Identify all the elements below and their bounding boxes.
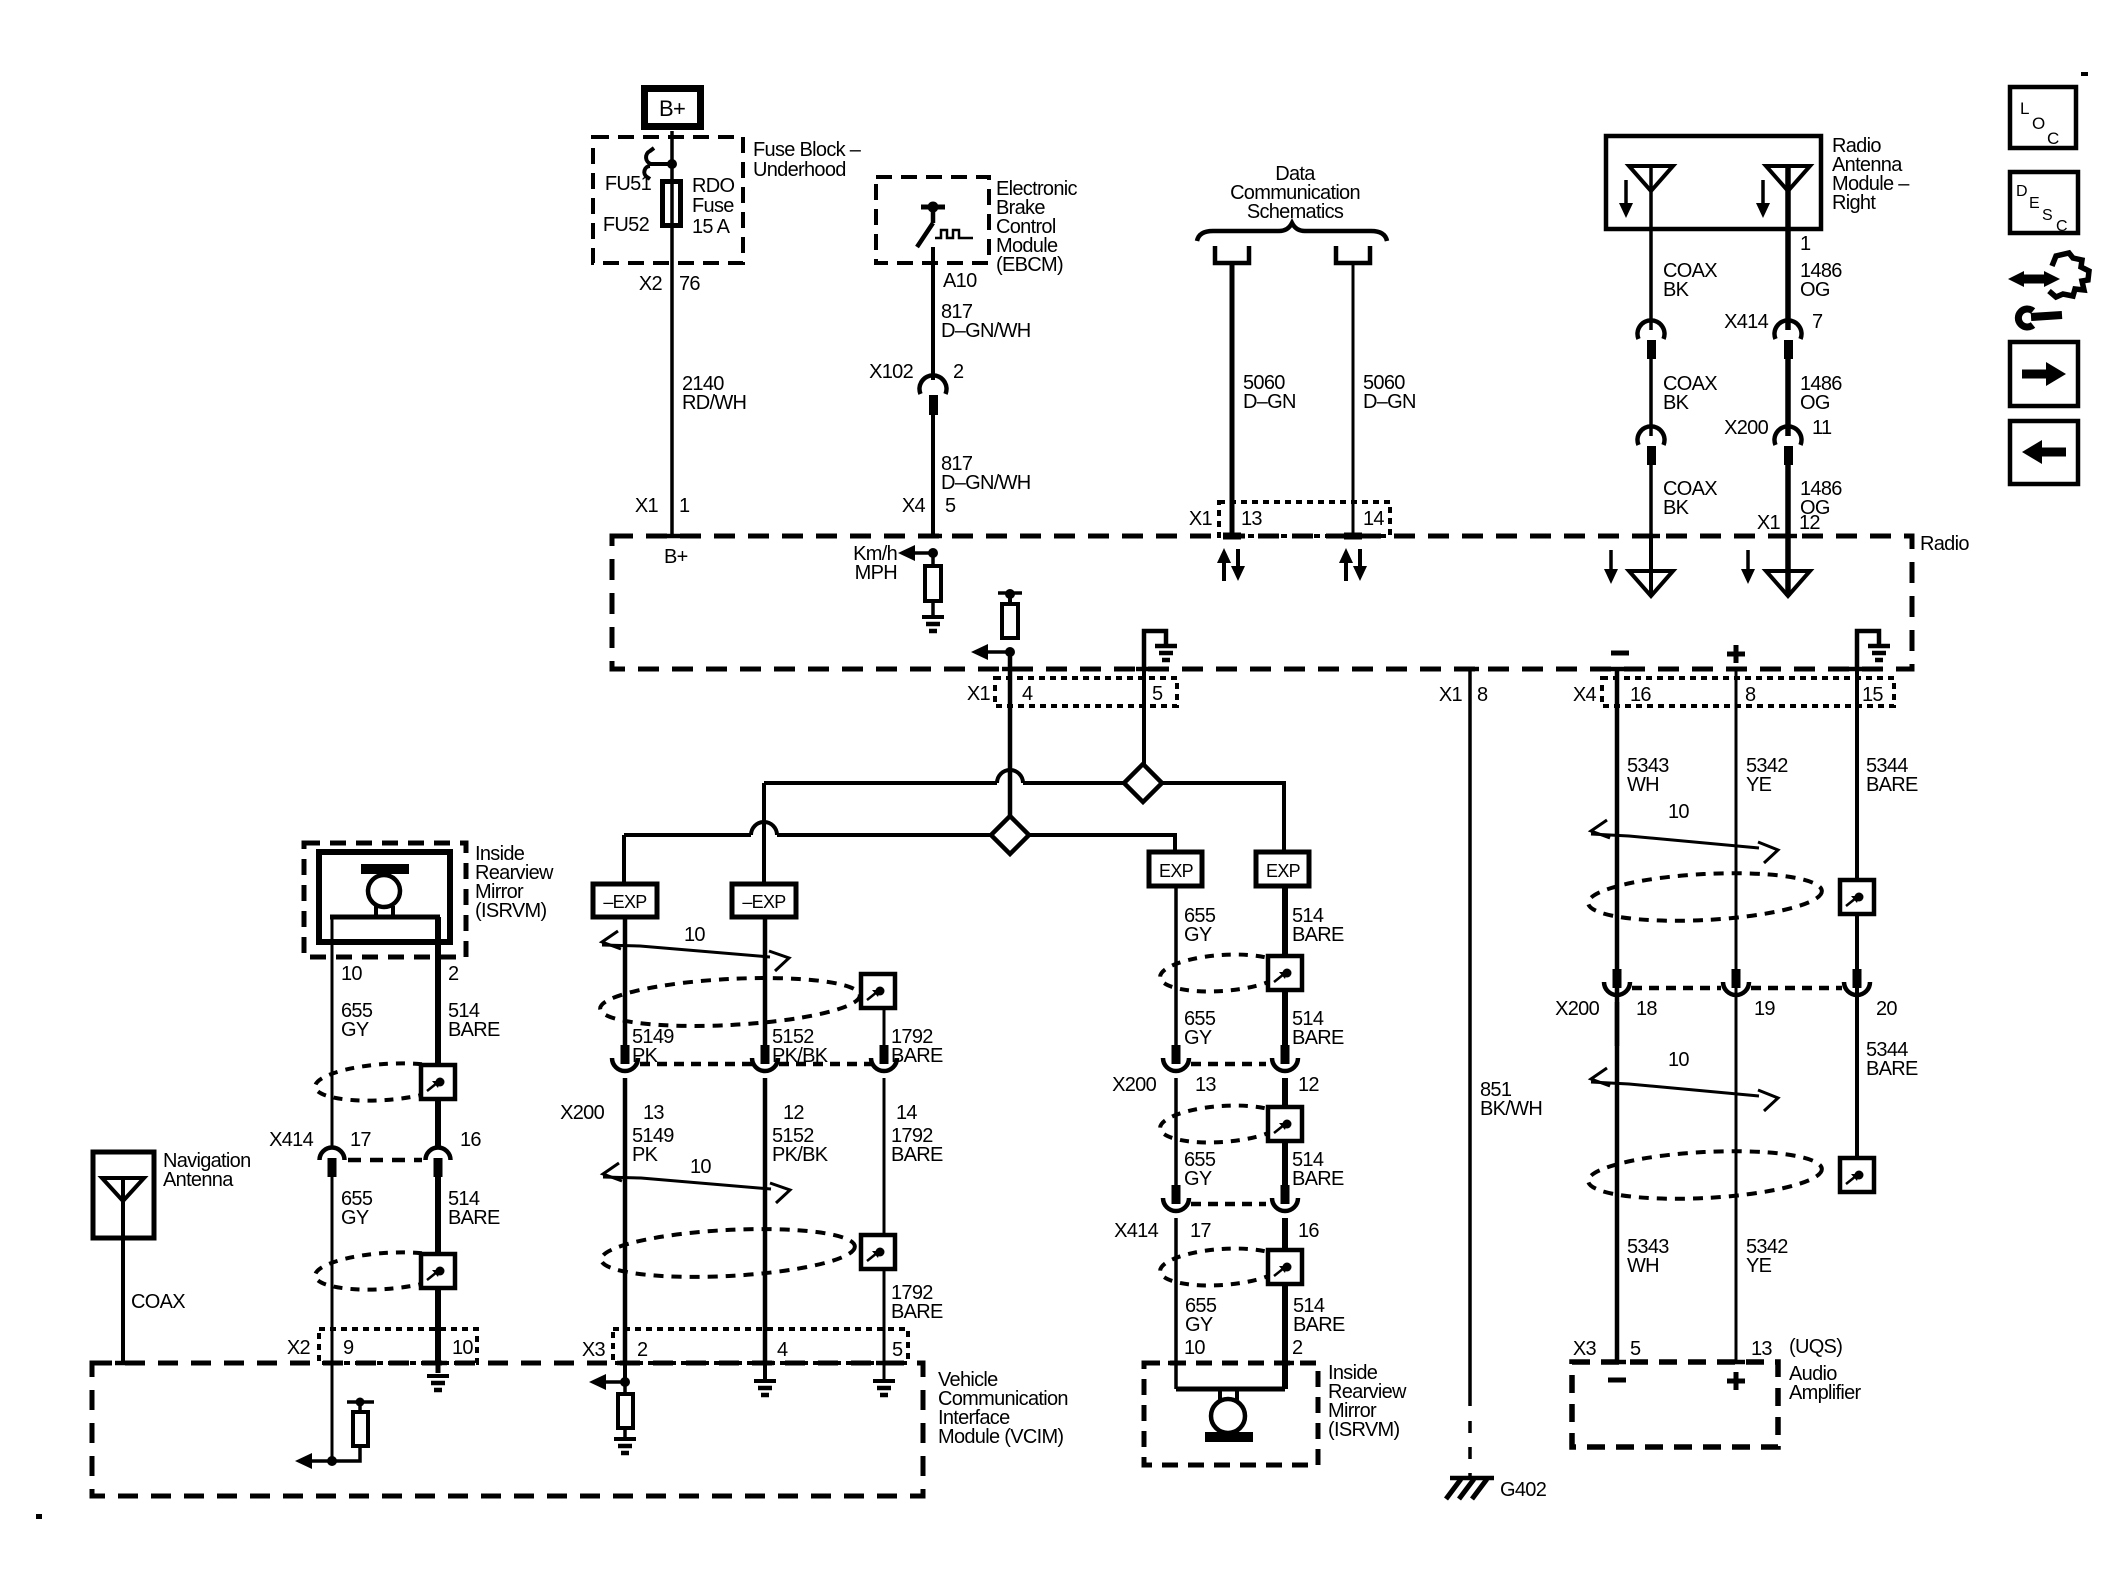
svg-text:10: 10 <box>1668 801 1689 823</box>
svg-text:X102: X102 <box>869 361 913 383</box>
svg-text:MPH: MPH <box>855 562 897 584</box>
svg-text:BK: BK <box>1663 392 1690 414</box>
svg-text:D: D <box>2016 183 2027 200</box>
svg-text:(EBCM): (EBCM) <box>996 254 1063 276</box>
svg-text:PK/BK: PK/BK <box>772 1144 829 1166</box>
svg-text:WH: WH <box>1627 1255 1659 1277</box>
svg-text:BARE: BARE <box>1292 924 1344 946</box>
svg-text:X1: X1 <box>1757 512 1781 534</box>
svg-text:4: 4 <box>777 1339 788 1361</box>
svg-text:14: 14 <box>896 1102 917 1124</box>
svg-text:C: C <box>2056 218 2067 235</box>
svg-text:2: 2 <box>448 963 459 985</box>
svg-text:YE: YE <box>1746 774 1772 796</box>
svg-text:16: 16 <box>1630 684 1651 706</box>
svg-text:GY: GY <box>1184 1027 1212 1049</box>
svg-text:X1: X1 <box>635 495 659 517</box>
svg-text:X200: X200 <box>1112 1074 1156 1096</box>
svg-text:COAX: COAX <box>131 1291 185 1313</box>
svg-text:15: 15 <box>1862 684 1883 706</box>
svg-text:BARE: BARE <box>1292 1168 1344 1190</box>
svg-text:A10: A10 <box>943 270 977 292</box>
svg-text:17: 17 <box>1190 1220 1211 1242</box>
svg-text:8: 8 <box>1745 684 1756 706</box>
svg-text:X3: X3 <box>582 1339 606 1361</box>
svg-text:RDO: RDO <box>692 175 734 197</box>
svg-text:G402: G402 <box>1500 1479 1547 1501</box>
svg-text:OG: OG <box>1800 279 1830 301</box>
svg-text:Fuse: Fuse <box>692 195 734 217</box>
svg-text:(ISRVM): (ISRVM) <box>475 900 546 922</box>
svg-text:BARE: BARE <box>1293 1314 1345 1336</box>
svg-text:19: 19 <box>1754 998 1775 1020</box>
svg-text:GY: GY <box>1185 1314 1213 1336</box>
svg-text:5: 5 <box>1152 683 1163 705</box>
svg-text:12: 12 <box>783 1102 804 1124</box>
svg-text:E: E <box>2029 195 2039 212</box>
svg-text:YE: YE <box>1746 1255 1772 1277</box>
svg-text:BK: BK <box>1663 497 1690 519</box>
svg-text:Schematics: Schematics <box>1247 201 1344 223</box>
svg-text:EXP: EXP <box>1159 861 1194 881</box>
svg-text:D–GN/WH: D–GN/WH <box>941 320 1031 342</box>
svg-text:BARE: BARE <box>891 1144 943 1166</box>
svg-text:BARE: BARE <box>448 1019 500 1041</box>
svg-text:X414: X414 <box>269 1129 313 1151</box>
svg-text:13: 13 <box>643 1102 664 1124</box>
svg-text:10: 10 <box>341 963 362 985</box>
svg-text:X1: X1 <box>1439 684 1463 706</box>
svg-text:X4: X4 <box>902 495 926 517</box>
svg-text:B+: B+ <box>664 546 688 568</box>
svg-text:X4: X4 <box>1573 684 1597 706</box>
svg-text:10: 10 <box>452 1337 473 1359</box>
svg-text:Underhood: Underhood <box>753 159 846 181</box>
svg-text:EXP: EXP <box>1266 861 1301 881</box>
svg-text:16: 16 <box>460 1129 481 1151</box>
svg-text:16: 16 <box>1298 1220 1319 1242</box>
svg-text:10: 10 <box>690 1156 711 1178</box>
svg-text:10: 10 <box>1668 1049 1689 1071</box>
svg-text:RD/WH: RD/WH <box>682 392 746 414</box>
svg-text:5: 5 <box>1630 1338 1641 1360</box>
svg-text:L: L <box>2020 99 2029 118</box>
svg-text:4: 4 <box>1022 683 1033 705</box>
svg-text:(UQS): (UQS) <box>1789 1336 1842 1358</box>
svg-text:2: 2 <box>1292 1337 1303 1359</box>
svg-text:B+: B+ <box>659 96 685 121</box>
svg-text:BARE: BARE <box>1292 1027 1344 1049</box>
svg-text:20: 20 <box>1876 998 1897 1020</box>
svg-text:–EXP: –EXP <box>742 892 786 912</box>
svg-text:GY: GY <box>1184 924 1212 946</box>
svg-text:Fuse Block –: Fuse Block – <box>753 139 862 161</box>
svg-text:11: 11 <box>1812 417 1832 439</box>
svg-text:BARE: BARE <box>1866 774 1918 796</box>
svg-text:X200: X200 <box>1555 998 1599 1020</box>
svg-text:76: 76 <box>679 273 700 295</box>
svg-text:X1: X1 <box>967 683 991 705</box>
svg-text:WH: WH <box>1627 774 1659 796</box>
svg-text:(ISRVM): (ISRVM) <box>1328 1419 1399 1441</box>
svg-text:X3: X3 <box>1573 1338 1597 1360</box>
svg-text:18: 18 <box>1636 998 1657 1020</box>
svg-text:10: 10 <box>1184 1337 1205 1359</box>
svg-text:X414: X414 <box>1724 311 1768 333</box>
svg-text:X200: X200 <box>1724 417 1768 439</box>
svg-text:BK/WH: BK/WH <box>1480 1098 1542 1120</box>
svg-text:FU51: FU51 <box>605 173 652 195</box>
svg-text:BARE: BARE <box>1866 1058 1918 1080</box>
svg-text:Antenna: Antenna <box>163 1169 234 1191</box>
svg-text:7: 7 <box>1812 311 1823 333</box>
svg-text:1: 1 <box>1800 233 1811 255</box>
svg-text:X2: X2 <box>639 273 663 295</box>
svg-text:X414: X414 <box>1114 1220 1158 1242</box>
svg-text:O: O <box>2032 114 2045 133</box>
svg-text:BARE: BARE <box>448 1207 500 1229</box>
svg-text:GY: GY <box>1184 1168 1212 1190</box>
svg-text:BARE: BARE <box>891 1301 943 1323</box>
svg-text:FU52: FU52 <box>603 214 650 236</box>
svg-text:GY: GY <box>341 1207 369 1229</box>
svg-text:BK: BK <box>1663 279 1690 301</box>
svg-text:12: 12 <box>1298 1074 1319 1096</box>
svg-text:C: C <box>2047 129 2059 148</box>
svg-text:D–GN: D–GN <box>1363 391 1416 413</box>
svg-text:9: 9 <box>343 1337 354 1359</box>
svg-text:BARE: BARE <box>891 1045 943 1067</box>
svg-text:5: 5 <box>945 495 956 517</box>
svg-text:D–GN/WH: D–GN/WH <box>941 472 1031 494</box>
svg-text:Module (VCIM): Module (VCIM) <box>938 1426 1063 1448</box>
svg-text:X2: X2 <box>287 1337 311 1359</box>
svg-text:Radio: Radio <box>1920 533 1969 555</box>
svg-text:2: 2 <box>953 361 964 383</box>
svg-text:13: 13 <box>1241 508 1262 530</box>
svg-text:10: 10 <box>684 924 705 946</box>
svg-text:PK: PK <box>632 1144 659 1166</box>
svg-text:13: 13 <box>1195 1074 1216 1096</box>
svg-text:X1: X1 <box>1189 508 1213 530</box>
svg-text:14: 14 <box>1363 508 1384 530</box>
svg-text:GY: GY <box>341 1019 369 1041</box>
svg-text:2: 2 <box>637 1339 648 1361</box>
svg-text:15 A: 15 A <box>692 216 731 238</box>
svg-text:17: 17 <box>350 1129 371 1151</box>
svg-text:D–GN: D–GN <box>1243 391 1296 413</box>
svg-text:1: 1 <box>679 495 690 517</box>
svg-text:–EXP: –EXP <box>603 892 647 912</box>
svg-text:12: 12 <box>1799 512 1820 534</box>
svg-text:5: 5 <box>892 1339 903 1361</box>
svg-text:S: S <box>2042 207 2052 224</box>
svg-text:OG: OG <box>1800 392 1830 414</box>
svg-text:Amplifier: Amplifier <box>1789 1382 1862 1404</box>
svg-text:8: 8 <box>1477 684 1488 706</box>
svg-text:X200: X200 <box>560 1102 604 1124</box>
svg-text:13: 13 <box>1751 1338 1772 1360</box>
svg-text:Right: Right <box>1832 192 1876 214</box>
